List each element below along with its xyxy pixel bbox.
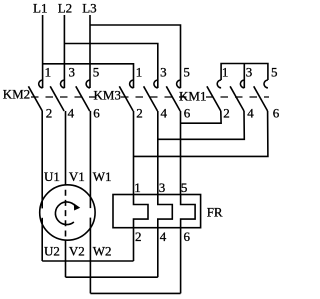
wire KM3 pole6 to FR pin5 <box>180 111 182 195</box>
svg-text:4: 4 <box>160 229 167 244</box>
contactor KM2 pole 5-6 blade <box>76 86 90 111</box>
wire KM1 star bus <box>221 64 268 81</box>
svg-text:4: 4 <box>247 106 254 121</box>
svg-text:5: 5 <box>93 65 100 80</box>
svg-text:6: 6 <box>184 229 191 244</box>
svg-text:KM1: KM1 <box>179 89 206 104</box>
svg-text:W1: W1 <box>93 169 112 184</box>
svg-text:6: 6 <box>273 106 280 121</box>
svg-text:1: 1 <box>45 65 52 80</box>
svg-text:1: 1 <box>136 65 143 80</box>
wire FR pin2 down to U2 rail <box>133 228 135 261</box>
svg-text:6: 6 <box>93 106 100 121</box>
wire KM2 pole6 to motor W1 <box>89 111 91 208</box>
wire motor W2 down <box>89 218 91 294</box>
wire KM2 pole2 to motor U1 <box>41 111 43 208</box>
contactor KM3 pole 1-2 fixed contact arc <box>130 80 134 88</box>
svg-text:1: 1 <box>134 180 141 195</box>
svg-text:3: 3 <box>159 180 166 195</box>
wire motor U2 down <box>41 218 43 261</box>
wire U2 rail to FR pin2 <box>42 260 133 262</box>
svg-text:4: 4 <box>68 106 75 121</box>
contactor KM2 linkage dashed line <box>31 96 97 98</box>
thermal relay FR box <box>113 195 201 228</box>
svg-text:L3: L3 <box>82 0 96 15</box>
contactor KM3 pole 3-4 fixed contact arc <box>154 80 158 88</box>
contactor KM2 pole 5-6 fixed contact arc <box>86 80 90 88</box>
contactor KM3 pole 5-6 blade <box>166 86 180 111</box>
svg-text:5: 5 <box>183 65 190 80</box>
svg-text:6: 6 <box>184 106 191 121</box>
contactor KM2 pole 3-4 blade <box>50 86 64 111</box>
svg-text:KM2: KM2 <box>3 87 30 102</box>
svg-text:3: 3 <box>160 65 167 80</box>
svg-text:2: 2 <box>46 106 53 121</box>
contactor KM3 linkage dashed line <box>121 96 188 98</box>
wire KM1 pole 3 drop from bus <box>243 64 245 89</box>
FR heater element phase 1 <box>134 195 149 228</box>
contactor KM1 pole 3-4 blade <box>230 86 244 111</box>
contactor KM3 pole 5-6 fixed contact arc <box>177 80 181 88</box>
wire KM2 pole4 to motor V1 <box>65 111 67 186</box>
wire KM1 pole4 to KM3 pole4 node <box>158 111 245 139</box>
contactor KM1 pole 5-6 blade <box>254 86 268 111</box>
contactor KM2 pole 1-2 fixed contact arc <box>39 80 43 88</box>
svg-text:2: 2 <box>223 106 230 121</box>
contactor KM2 pole 1-2 blade <box>28 86 42 111</box>
svg-text:4: 4 <box>161 106 168 121</box>
wire branch L2 to KM3 pole 3 <box>64 44 157 89</box>
motor rotation arrowhead <box>74 203 80 210</box>
wire branch L1 to KM3 pole 1 <box>43 64 134 88</box>
svg-text:L2: L2 <box>58 0 72 15</box>
wire KM1 pole6 to KM3 pole2 node <box>134 111 268 156</box>
contactor KM1 pole 5-6 fixed contact arc <box>264 80 268 88</box>
wire FR pin6 down to W2 rail <box>180 228 182 294</box>
contactor KM1 pole 3-4 fixed contact arc <box>240 80 244 88</box>
svg-text:L1: L1 <box>33 0 47 15</box>
svg-text:FR: FR <box>207 205 223 220</box>
svg-text:U2: U2 <box>44 244 60 259</box>
wire KM3 pole4 to FR pin3 <box>157 111 159 195</box>
wire L3 vertical to KM2 pole 5 <box>89 15 91 88</box>
wire L1 vertical to KM2 pole 1 <box>42 15 44 88</box>
svg-text:KM3: KM3 <box>94 87 121 102</box>
motor shaft dashed diameter <box>65 190 67 237</box>
svg-text:V1: V1 <box>69 169 85 184</box>
svg-text:3: 3 <box>246 65 253 80</box>
contactor KM3 pole 1-2 blade <box>119 86 133 111</box>
svg-text:5: 5 <box>271 65 278 80</box>
svg-text:V2: V2 <box>69 244 85 259</box>
wire branch L3 to KM3 pole 5 <box>90 25 181 88</box>
contactor KM1 pole 1-2 blade <box>207 86 221 111</box>
wire L2 vertical to KM2 pole 3 <box>63 15 65 88</box>
contactor KM1 linkage dashed line <box>206 96 269 98</box>
motor rotation arrow arc <box>55 202 75 225</box>
svg-text:1: 1 <box>222 65 229 80</box>
wire FR pin4 down to V2 rail <box>157 228 159 278</box>
svg-text:3: 3 <box>69 65 76 80</box>
svg-text:U1: U1 <box>44 169 60 184</box>
wire KM1 pole2 to KM3 pole6 node <box>181 111 222 123</box>
svg-text:5: 5 <box>181 180 188 195</box>
contactor KM2 pole 3-4 fixed contact arc <box>60 80 64 88</box>
wire KM3 pole2 to FR pin1 <box>133 111 135 195</box>
contactor KM3 pole 3-4 blade <box>144 86 158 111</box>
contactor KM1 pole 1-2 fixed contact arc <box>217 80 221 88</box>
FR heater element phase 3 <box>181 195 196 228</box>
wire W2 rail to FR pin6 <box>90 292 180 294</box>
wire V2 rail to FR pin4 <box>66 276 158 278</box>
svg-text:W2: W2 <box>93 244 112 259</box>
svg-text:2: 2 <box>136 106 143 121</box>
svg-text:2: 2 <box>135 229 142 244</box>
motor M circle <box>40 185 95 240</box>
wire motor V2 down <box>65 240 67 277</box>
FR heater element phase 2 <box>158 195 173 228</box>
